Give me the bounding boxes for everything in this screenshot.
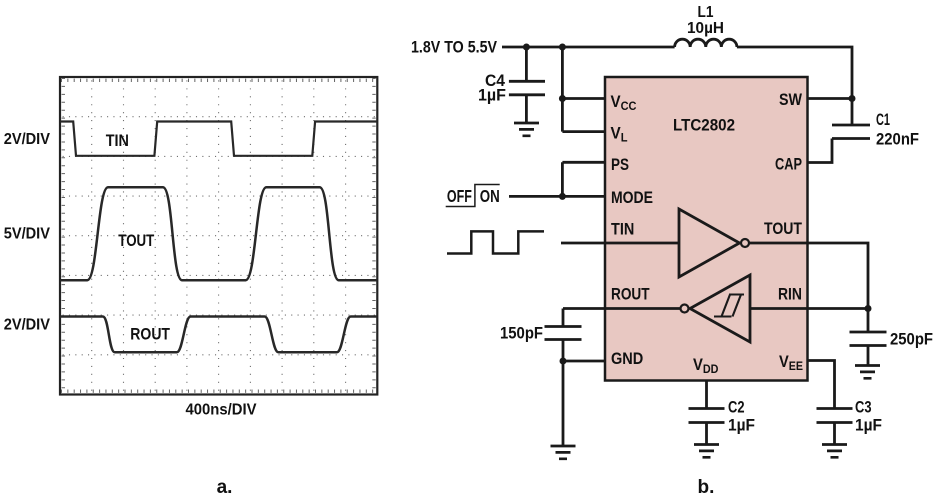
svg-text:1µF: 1µF: [478, 87, 506, 105]
svg-text:RIN: RIN: [778, 285, 802, 303]
svg-text:L1: L1: [698, 4, 714, 21]
svg-text:C3: C3: [855, 399, 872, 417]
svg-text:MODE: MODE: [611, 189, 653, 207]
svg-text:LTC2802: LTC2802: [673, 116, 735, 134]
svg-text:1.8V TO 5.5V: 1.8V TO 5.5V: [411, 39, 497, 57]
svg-text:150pF: 150pF: [500, 325, 543, 343]
svg-text:1µF: 1µF: [728, 417, 755, 435]
svg-text:250pF: 250pF: [890, 330, 933, 348]
svg-text:GND: GND: [611, 350, 643, 368]
svg-text:ROUT: ROUT: [611, 286, 650, 304]
svg-text:2V/DIV: 2V/DIV: [4, 131, 51, 148]
svg-text:TIN: TIN: [611, 220, 634, 238]
svg-text:b.: b.: [698, 477, 715, 496]
svg-text:CAP: CAP: [775, 155, 802, 173]
svg-text:2V/DIV: 2V/DIV: [4, 317, 51, 334]
svg-text:400ns/DIV: 400ns/DIV: [186, 401, 257, 418]
svg-text:C2: C2: [728, 399, 745, 417]
svg-text:TOUT: TOUT: [118, 232, 154, 250]
svg-text:SW: SW: [779, 91, 802, 109]
svg-text:TOUT: TOUT: [764, 220, 802, 238]
svg-text:C1: C1: [876, 111, 890, 129]
svg-text:OFF: OFF: [447, 186, 472, 206]
svg-text:PS: PS: [611, 156, 629, 174]
svg-text:10µH: 10µH: [687, 20, 724, 37]
svg-text:ON: ON: [480, 186, 500, 206]
svg-text:1µF: 1µF: [855, 417, 882, 435]
svg-text:TIN: TIN: [106, 132, 129, 150]
svg-text:5V/DIV: 5V/DIV: [4, 225, 51, 242]
svg-text:220nF: 220nF: [876, 130, 919, 148]
svg-text:a.: a.: [217, 477, 233, 496]
svg-text:ROUT: ROUT: [130, 326, 170, 344]
